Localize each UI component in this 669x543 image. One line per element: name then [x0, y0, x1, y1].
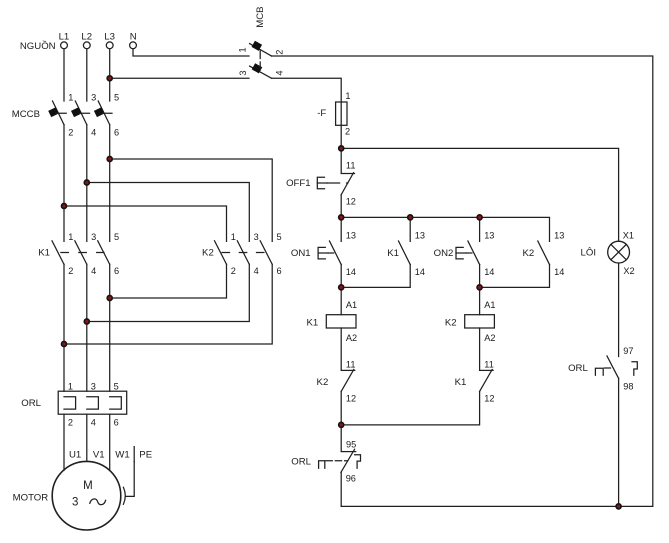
svg-text:13: 13	[554, 231, 564, 241]
motor M 3-phase	[13, 461, 121, 530]
svg-text:N: N	[130, 32, 137, 43]
pushbutton OFF1 NC	[286, 160, 356, 206]
junction L2 feed	[84, 180, 89, 185]
wire L1 to K2 pole 1	[64, 206, 227, 241]
svg-text:14: 14	[346, 267, 356, 277]
svg-text:3: 3	[91, 93, 96, 103]
junction fuse output	[339, 146, 344, 151]
svg-text:ORL: ORL	[568, 363, 588, 374]
PE connection wire	[126, 462, 134, 497]
junction L3 feed	[107, 157, 112, 162]
svg-text:MOTOR: MOTOR	[13, 493, 49, 504]
pushbutton ON2 NO	[434, 231, 495, 278]
wire K2 coil to K1 interlock	[479, 328, 481, 370]
junction K2-4	[84, 319, 89, 324]
wire MCB 2 to right edge and neutral down	[272, 56, 653, 506]
terminal L1	[59, 32, 70, 49]
wire OFF1 to control bus	[340, 195, 342, 218]
svg-text:6: 6	[114, 417, 119, 427]
wire N to MCB pole 1	[133, 49, 249, 56]
wire L1 MCCB to K1	[63, 125, 65, 242]
terminal L3	[104, 32, 115, 49]
svg-text:13: 13	[415, 231, 425, 241]
svg-text:5: 5	[277, 232, 282, 242]
svg-text:1: 1	[231, 232, 236, 242]
svg-text:2: 2	[275, 50, 285, 55]
svg-text:3: 3	[91, 232, 96, 242]
svg-text:95: 95	[346, 440, 356, 450]
wire K2 aux to join	[480, 265, 550, 288]
wire L2 to MCCB	[86, 49, 88, 101]
svg-text:LÔI: LÔI	[581, 248, 596, 259]
junction ON1/K1aux	[339, 285, 344, 290]
svg-text:NGUỒN: NGUỒN	[20, 40, 56, 52]
svg-text:1: 1	[68, 381, 73, 391]
svg-text:ORL: ORL	[291, 456, 311, 467]
contact K1 aux NO 13-14	[387, 231, 425, 278]
wire fuse to OFF1	[340, 148, 342, 173]
svg-text:K1: K1	[387, 248, 399, 259]
wire K2-4 to L2 branch	[87, 264, 250, 321]
contact K2 NC interlock 11-12	[317, 359, 357, 403]
fuse -F	[317, 91, 350, 136]
svg-text:X2: X2	[623, 266, 634, 276]
svg-text:14: 14	[554, 267, 564, 277]
wire K1-6 down to ORL	[109, 264, 111, 391]
svg-text:12: 12	[346, 197, 356, 207]
svg-text:U1: U1	[69, 450, 81, 461]
svg-text:4: 4	[275, 70, 285, 75]
svg-text:K2: K2	[317, 377, 329, 388]
junction K2-2	[107, 296, 112, 301]
svg-text:MCCB: MCCB	[12, 109, 40, 120]
svg-text:3: 3	[254, 232, 259, 242]
svg-text:13: 13	[346, 231, 356, 241]
junction bus at K1 aux branch	[408, 215, 413, 220]
svg-text:2: 2	[68, 417, 73, 427]
wire K2-2 to L3 branch	[110, 264, 227, 298]
wire ORL to bottom bus	[340, 472, 342, 506]
circuit breaker MCB pole 1-2	[238, 41, 285, 56]
control bus wire	[341, 217, 549, 241]
svg-text:K2: K2	[445, 317, 457, 328]
wire K1 coil to K2 interlock	[340, 328, 342, 370]
svg-text:A1: A1	[484, 300, 495, 310]
svg-text:K1: K1	[38, 248, 50, 259]
svg-text:X1: X1	[623, 231, 634, 241]
contactor K2 main contacts	[202, 232, 282, 276]
wire U1 to motor	[63, 414, 65, 470]
svg-text:12: 12	[484, 394, 494, 404]
wire L3 to K2 pole 5	[110, 159, 273, 241]
svg-text:6: 6	[277, 266, 282, 276]
svg-text:K2: K2	[202, 248, 214, 259]
circuit breaker MCCB 3-pole	[12, 93, 119, 138]
svg-text:2: 2	[68, 266, 73, 276]
svg-text:ON1: ON1	[291, 248, 311, 259]
svg-text:2: 2	[231, 266, 236, 276]
svg-text:97: 97	[623, 346, 633, 356]
svg-text:4: 4	[91, 266, 96, 276]
svg-text:4: 4	[91, 417, 96, 427]
svg-text:6: 6	[114, 266, 119, 276]
wire K2 interlock down	[340, 391, 342, 425]
svg-text:ORL: ORL	[21, 398, 41, 409]
svg-text:11: 11	[484, 359, 494, 369]
wire K1 aux to join	[341, 265, 410, 288]
svg-text:1: 1	[68, 93, 73, 103]
svg-text:ON2: ON2	[434, 248, 454, 259]
svg-text:PE: PE	[139, 450, 152, 461]
svg-text:L3: L3	[104, 32, 115, 43]
svg-text:13: 13	[484, 231, 494, 241]
svg-text:-F: -F	[317, 108, 326, 119]
svg-text:V1: V1	[93, 450, 105, 461]
wire K1 interlock to join	[341, 391, 479, 425]
contact K2 aux NO 13-14	[522, 231, 564, 278]
svg-text:1: 1	[68, 232, 73, 242]
wire K1-2 down to ORL	[63, 264, 65, 391]
terminal L2	[81, 32, 92, 49]
wire bus to K1 aux	[409, 217, 411, 241]
circuit breaker MCB pole 3-4	[238, 63, 285, 78]
junction bus at ON2 branch	[477, 215, 482, 220]
coil K2	[445, 300, 496, 343]
motor terminal labels	[69, 447, 152, 462]
lamp LOI X1-X2	[581, 231, 635, 277]
wire lamp to ORL 97	[618, 263, 620, 357]
junction lamp branch bottom	[616, 504, 621, 509]
junction interlock join	[339, 422, 344, 427]
svg-text:A2: A2	[346, 333, 357, 343]
contact ORL NC 95-96	[291, 440, 360, 484]
svg-text:K2: K2	[522, 248, 534, 259]
svg-text:1: 1	[345, 91, 350, 101]
wire ORL 98 to bottom bus	[618, 378, 620, 506]
svg-text:2: 2	[68, 128, 73, 138]
svg-text:14: 14	[484, 267, 494, 277]
svg-text:6: 6	[114, 128, 119, 138]
svg-text:1: 1	[238, 47, 248, 52]
wire K1-4 down to ORL	[86, 264, 88, 391]
wire to K1 coil	[340, 287, 342, 314]
svg-text:3: 3	[91, 381, 96, 391]
svg-text:12: 12	[346, 394, 356, 404]
contact ORL NO 97-98	[568, 346, 637, 392]
wire L1 to MCCB	[63, 49, 65, 101]
junction ON2/K2aux	[477, 285, 482, 290]
junction K2-6	[62, 342, 67, 347]
wire K2-6 to L1 branch	[64, 264, 272, 344]
wire bus to ON2	[479, 217, 481, 241]
bottom bus wire	[341, 505, 653, 507]
junction L3 tap	[107, 76, 112, 81]
wire L2 to K2 pole 3	[87, 183, 250, 242]
svg-text:L1: L1	[59, 32, 70, 43]
svg-text:11: 11	[346, 359, 356, 369]
wire bus to ON1	[340, 217, 342, 241]
svg-text:3: 3	[72, 497, 78, 509]
junction bus at OFF1 branch	[339, 215, 344, 220]
svg-text:A1: A1	[346, 300, 357, 310]
coil K1	[306, 300, 357, 343]
svg-text:L2: L2	[81, 32, 92, 43]
wire V1 to motor	[86, 414, 88, 461]
junction L1 feed	[62, 204, 67, 209]
svg-text:W1: W1	[115, 450, 129, 461]
wire L2 MCCB to K1	[86, 125, 88, 242]
pushbutton ON1 NO	[291, 231, 356, 278]
wire to K2 coil	[479, 287, 481, 314]
svg-text:3: 3	[238, 70, 248, 75]
svg-text:M: M	[83, 480, 93, 492]
svg-text:96: 96	[346, 473, 356, 483]
terminal N	[130, 32, 137, 49]
wire L3 tap to MCB pole 3	[110, 77, 249, 79]
svg-text:5: 5	[114, 93, 119, 103]
svg-text:14: 14	[415, 267, 425, 277]
svg-text:MCB: MCB	[255, 6, 266, 27]
wire ON1 down	[340, 265, 342, 288]
PE frame arc	[123, 487, 125, 504]
wire to lamp branch	[341, 148, 618, 241]
MCB mechanical link	[259, 51, 261, 71]
svg-text:A2: A2	[484, 333, 495, 343]
wire W1 to motor	[109, 414, 111, 470]
contact K1 NC interlock 11-12	[455, 359, 495, 403]
wire L3 to MCCB	[109, 49, 111, 101]
svg-text:4: 4	[91, 128, 96, 138]
wire join to ORL 95	[340, 425, 342, 451]
wire L3 MCCB to K1	[109, 125, 111, 242]
wire ON2 down	[479, 265, 481, 288]
svg-text:K1: K1	[306, 317, 318, 328]
svg-text:11: 11	[346, 160, 356, 170]
contactor K1 main contacts	[38, 232, 119, 276]
wire MCB 4 to fuse branch	[272, 78, 342, 148]
svg-text:4: 4	[254, 266, 259, 276]
svg-text:5: 5	[114, 232, 119, 242]
svg-text:K1: K1	[455, 377, 467, 388]
svg-text:5: 5	[114, 381, 119, 391]
overload relay ORL heater elements	[21, 381, 126, 427]
svg-text:OFF1: OFF1	[286, 178, 311, 189]
svg-text:98: 98	[623, 382, 633, 392]
svg-text:2: 2	[345, 126, 350, 136]
